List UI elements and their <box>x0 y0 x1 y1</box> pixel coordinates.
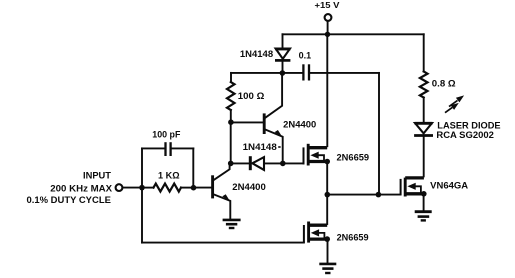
svg-text:RCA SG2002: RCA SG2002 <box>436 130 494 140</box>
resistor R2 100 ohm <box>227 82 235 110</box>
wire laser diode to VN64GA drain <box>423 137 425 177</box>
resistor R1 1 Kohm <box>154 184 182 192</box>
diode D1 1N4148 (top, pointing down) <box>275 49 290 73</box>
wire node G to R1 <box>142 187 154 189</box>
MOSFET Q4 2N6659 (lower) <box>304 222 327 243</box>
feedback wire node G down <box>141 188 143 243</box>
wire node E to VN64GA gate <box>327 194 400 196</box>
wire x=378 vertical down to gate bus <box>378 73 380 195</box>
wire Q4 source to ground <box>327 239 329 263</box>
svg-text:2N6659: 2N6659 <box>337 232 369 242</box>
svg-text:1N4148: 1N4148 <box>243 142 277 152</box>
svg-text:INPUT: INPUT <box>83 171 112 181</box>
dash after label <box>278 146 280 148</box>
node B (base node of Q1) <box>228 119 234 125</box>
node D (emitter of Q1 joins D2 wire) <box>280 161 286 167</box>
node A (anode junction x=282,y=73) <box>280 70 286 76</box>
wire corner down into resistor R2 <box>230 73 232 82</box>
wire node H to Q2 base <box>194 187 212 189</box>
wire Q5 source to ground <box>423 194 425 211</box>
svg-text:2N4400: 2N4400 <box>232 182 265 192</box>
wire C1 top right <box>172 147 194 149</box>
wire node B down to node C <box>230 122 232 163</box>
input terminal <box>116 184 123 191</box>
laser diode D3 (pointing down) <box>414 123 433 136</box>
wire node E down to Q4 drain <box>326 195 328 224</box>
resistor R3 0.8 ohm leads <box>423 34 425 71</box>
wire input to node G <box>123 187 142 189</box>
wire base of Q1 <box>231 121 263 123</box>
capacitor C2 0.1 plates <box>302 64 304 80</box>
transistor Q1 2N4400 (upper NPN) <box>264 73 283 163</box>
svg-text:1N4148: 1N4148 <box>240 49 273 59</box>
capacitor C1 100 pF loop left riser <box>141 148 143 187</box>
wire main vertical +15 to Q3 drain <box>326 34 328 146</box>
wire terminal to bus <box>327 21 329 34</box>
node E junction <box>325 192 331 198</box>
svg-text:0.8 Ω: 0.8 Ω <box>432 79 456 89</box>
wire Q3 source down to node E <box>326 162 328 195</box>
capacitor C1 plates <box>164 142 166 156</box>
node G <box>139 185 145 191</box>
+15 V terminal <box>325 14 332 21</box>
laser emission arrows <box>445 95 464 112</box>
transistor Q2 2N4400 (lower NPN) <box>213 163 231 219</box>
feedback wire bottom run <box>142 242 304 244</box>
svg-text:VN64GA: VN64GA <box>430 181 468 191</box>
node bus junction <box>325 32 330 37</box>
wire node C through D2 to node D <box>231 162 249 164</box>
wire C1 top left <box>142 147 164 149</box>
svg-text:1 KΩ: 1 KΩ <box>158 171 180 181</box>
ground G1 (Q2 emitter) <box>223 220 241 228</box>
resistor R3 0.8 ohm <box>420 72 428 98</box>
svg-text:0.1% DUTY CYCLE: 0.1% DUTY CYCLE <box>27 195 111 205</box>
node Q3 source dot <box>324 159 330 165</box>
svg-text:100 pF: 100 pF <box>152 129 181 139</box>
svg-text:2N6659: 2N6659 <box>337 152 370 162</box>
wire R2 to node B <box>230 110 232 122</box>
MOSFET Q3 2N6659 (upper) <box>304 144 328 166</box>
wire bus to diode D1 <box>282 34 284 47</box>
node Q4 source dot <box>324 236 330 242</box>
svg-text:200 KHz MAX: 200 KHz MAX <box>50 183 112 193</box>
MOSFET Q5 VN64GA <box>401 178 424 197</box>
wire C2 right plate to x=378 corner <box>310 72 379 74</box>
wire R1 to node H <box>181 187 194 189</box>
ground G2 (Q4 source) <box>319 264 336 273</box>
wire C1 right riser <box>192 148 194 187</box>
svg-text:2N4400: 2N4400 <box>283 120 316 130</box>
node F (x=378 joins gate wire) <box>376 192 382 198</box>
svg-text:0.1: 0.1 <box>299 51 312 61</box>
+15V bus wire <box>283 33 424 35</box>
svg-text:+15 V: +15 V <box>315 1 341 10</box>
wire node A left to 100ohm corner <box>231 72 302 74</box>
node C (diode D2 left node) <box>228 161 234 167</box>
node Q5 source dot <box>421 191 427 197</box>
svg-text:100 Ω: 100 Ω <box>238 91 264 101</box>
ground G3 (Q5 source) <box>415 212 432 221</box>
wire R3 to laser diode <box>423 98 425 123</box>
diode D2 1N4148 (pointing left) <box>250 156 264 170</box>
node H <box>191 185 197 191</box>
